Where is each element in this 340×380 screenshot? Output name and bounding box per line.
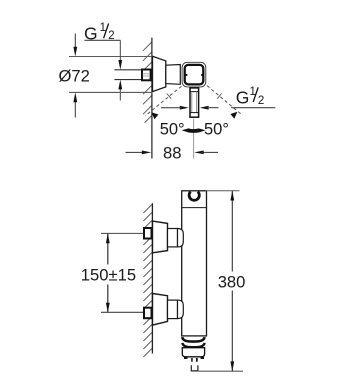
lever (top view): [190, 88, 199, 117]
outlet feet: [184, 356, 187, 359]
tick on left dashed line: [167, 94, 171, 99]
bottom outlet: shell lip: [182, 337, 204, 342]
svg-text:380: 380: [218, 272, 246, 291]
88 dimension: [126, 151, 145, 153]
svg-text:88: 88: [163, 143, 181, 162]
union nut square (top view): [142, 70, 151, 81]
380 dimension: [206, 190, 240, 192]
bottom outlet: chrome ring: [182, 343, 204, 347]
supply stub / extension line lower: [101, 311, 144, 313]
outlet nut block: [182, 348, 204, 357]
svg-text:2: 2: [258, 95, 264, 107]
svg-text:50°: 50°: [204, 120, 229, 138]
50° tangent arrows at dashed ends: [151, 112, 158, 119]
lever centre extension line: [193, 119, 195, 159]
supply pipe (top view): [114, 69, 141, 71]
lower connection nut: [168, 300, 178, 319]
supply stub / extension line upper: [101, 232, 144, 234]
handle ring (thick): [185, 65, 204, 85]
hanger ring on top: [189, 192, 199, 201]
150±15 dimension: [107, 233, 109, 264]
handle outer (top view): [182, 62, 206, 87]
wall hatching (top view): [143, 42, 152, 123]
G1/2 up arrow: [119, 88, 121, 101]
svg-text:50°: 50°: [160, 120, 185, 138]
escutcheon cone (top view): [153, 56, 166, 91]
upper connection nut: [168, 229, 178, 247]
wall (top view): [151, 38, 153, 159]
cap joint line: [182, 207, 207, 209]
Ø72 dimension: [69, 56, 152, 58]
wall hatching (side view): [143, 204, 152, 357]
mixer body: [182, 191, 207, 336]
hose union (open square): [191, 365, 198, 371]
50° dashed swing lines: [145, 86, 242, 116]
50° tangent arrows at lever: [180, 106, 209, 110]
swing double-arrow (bowtie): [182, 128, 206, 133]
upper wall square: [144, 228, 152, 239]
handle notches: [185, 74, 187, 76]
lower escutcheon cone: [153, 294, 168, 326]
wall (side view): [151, 203, 153, 353]
svg-text:Ø72: Ø72: [59, 67, 90, 86]
lower wall square: [144, 308, 152, 319]
tick on right dashed line: [217, 94, 221, 99]
outlet prongs: [191, 358, 193, 362]
leader G1/2 down arrow: [119, 40, 121, 62]
svg-text:150±15: 150±15: [81, 266, 136, 285]
valve body (top view): [166, 65, 181, 85]
svg-text:G: G: [236, 88, 250, 108]
upper escutcheon cone: [153, 221, 168, 253]
thread marks in nut: [143, 73, 150, 75]
